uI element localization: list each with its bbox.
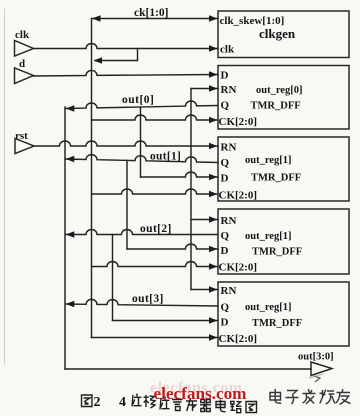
svg-text:2: 2 xyxy=(94,395,101,410)
out[2] drop vertical to D of out_reg[3] xyxy=(112,235,114,321)
wire CK[2:0] of out_reg[0] xyxy=(92,115,219,120)
wire rst trunk to RN out_reg[2] xyxy=(191,219,218,221)
stray mark xyxy=(314,376,320,382)
svg-text:D: D xyxy=(221,317,229,329)
arrowhead into clk_skew port xyxy=(209,15,218,21)
svg-text:out[3:0]: out[3:0] xyxy=(298,352,334,363)
caption figure number glyph tu xyxy=(82,395,93,407)
svg-text:RN: RN xyxy=(221,142,237,154)
arrowhead into D port reg3 xyxy=(209,317,218,323)
arrowhead into RN port reg0 xyxy=(209,85,218,91)
svg-text:RN: RN xyxy=(221,84,237,96)
svg-text:RN: RN xyxy=(221,215,237,227)
wire out bus bottom to output buffer xyxy=(65,368,311,370)
arrowhead out[2] into bus xyxy=(66,231,75,237)
input buffer d xyxy=(15,68,34,84)
rst trunk vertical xyxy=(190,89,192,290)
caption glyph tu xyxy=(246,402,257,413)
svg-text:D: D xyxy=(221,173,229,185)
caption glyph ji xyxy=(172,398,183,411)
out bus trunk vertical xyxy=(64,107,66,369)
svg-text:out[0]: out[0] xyxy=(122,94,154,106)
arrowhead into RN port reg3 xyxy=(209,286,218,292)
caption glyph cun xyxy=(186,399,197,412)
watermark glyph fa xyxy=(303,389,316,404)
svg-text:Q: Q xyxy=(221,100,230,112)
out_reg[2] TMR_DFF box xyxy=(218,209,349,274)
caption glyph qi xyxy=(200,400,211,412)
input buffer rst xyxy=(15,139,34,154)
output buffer out[3:0] xyxy=(311,362,332,376)
ck trunk vertical xyxy=(91,19,93,338)
wire CK[2:0] of out_reg[2] xyxy=(92,262,219,267)
svg-text:rst: rst xyxy=(15,130,28,142)
svg-text:clk: clk xyxy=(220,44,235,56)
caption glyph wei xyxy=(160,397,170,410)
svg-text:D: D xyxy=(221,245,229,257)
wire out[0] from Q of out_reg[0] to bus trunk xyxy=(66,101,218,108)
svg-text:Q: Q xyxy=(221,230,230,242)
wire d to D of out_reg[0] xyxy=(34,70,219,76)
wire rst to RN of out_reg[1] xyxy=(34,141,218,146)
arrowhead into RN port reg2 xyxy=(209,216,218,222)
wire out[2] from Q of out_reg[2] to bus trunk xyxy=(66,230,218,235)
svg-text:out[2]: out[2] xyxy=(140,223,172,235)
arrowhead clk fork into trunk xyxy=(94,57,103,63)
wire CK[2:0] of out_reg[1] xyxy=(92,189,219,194)
svg-text:elecfans.com: elecfans.com xyxy=(154,384,247,403)
svg-text:out_reg[1]: out_reg[1] xyxy=(245,155,291,166)
arrowhead into CK port reg3 xyxy=(209,334,218,340)
svg-text:CK[2:0]: CK[2:0] xyxy=(219,190,258,202)
svg-text:clkgen: clkgen xyxy=(259,26,296,41)
svg-text:clk: clk xyxy=(15,29,30,41)
svg-text:out_reg[1]: out_reg[1] xyxy=(245,302,291,313)
arrowhead into CK port reg2 xyxy=(209,263,218,269)
wire D of out_reg[3] xyxy=(113,320,219,322)
wire D of out_reg[2] xyxy=(127,244,218,249)
wire ck[1:0] horizontal xyxy=(92,18,218,20)
out_reg[1] TMR_DFF box xyxy=(218,137,349,201)
arrowhead into CK port reg0 xyxy=(209,117,218,123)
arrowhead out[0] into bus xyxy=(66,105,75,111)
svg-text:out_reg[1]: out_reg[1] xyxy=(245,231,291,242)
wire clk to clkgen xyxy=(34,44,219,49)
input buffer clk xyxy=(15,41,34,57)
watermark glyph zi xyxy=(286,391,299,405)
wire clk fork vertical xyxy=(137,49,139,61)
svg-text:d: d xyxy=(19,58,25,70)
svg-text:TMR_DFF: TMR_DFF xyxy=(251,101,301,112)
svg-text:4: 4 xyxy=(119,395,126,410)
smudge under output buffer xyxy=(309,374,323,378)
svg-text:out_reg[0]: out_reg[0] xyxy=(256,85,302,96)
svg-text:CK[2:0]: CK[2:0] xyxy=(219,262,258,274)
wire out[1] from Q of out_reg[1] to bus trunk xyxy=(66,155,218,163)
out[0] drop vertical to D of out_reg[1] xyxy=(140,107,142,177)
clkgen U1 box xyxy=(218,11,349,58)
arrowhead ck[1:0] into trunk xyxy=(92,15,101,21)
out_reg[0] TMR_DFF box xyxy=(218,66,349,130)
svg-text:ck[1:0]: ck[1:0] xyxy=(134,7,169,19)
svg-text:TMR_DFF: TMR_DFF xyxy=(252,247,302,258)
caption glyph wei xyxy=(132,394,142,407)
svg-text:D: D xyxy=(221,70,229,82)
arrowhead into D port reg2 xyxy=(209,246,218,252)
watermark glyph shao xyxy=(320,390,336,405)
svg-text:Q: Q xyxy=(221,302,230,314)
watermark glyph dian xyxy=(270,389,281,403)
arrowhead into CK port reg1 xyxy=(209,191,218,197)
arrowhead into D port reg1 xyxy=(209,174,218,180)
arrowhead into D port reg0 xyxy=(209,71,218,77)
wire out[3] from Q of out_reg[3] to bus trunk xyxy=(66,299,218,306)
svg-text:RN: RN xyxy=(221,285,237,297)
svg-text:TMR_DFF: TMR_DFF xyxy=(251,173,301,184)
watermark glyph you xyxy=(336,389,351,405)
arrowhead out[3] into bus xyxy=(66,301,75,307)
wire clk fork to ck trunk xyxy=(95,60,138,62)
svg-text:Q: Q xyxy=(221,157,230,169)
wire rst trunk to RN out_reg[3] xyxy=(191,289,218,291)
arrowhead into RN port reg1 xyxy=(209,143,218,149)
out[1] drop vertical to D of out_reg[2] xyxy=(126,160,128,249)
svg-text:out[1]: out[1] xyxy=(150,151,181,163)
svg-text:CK[2:0]: CK[2:0] xyxy=(219,116,258,128)
wire CK[2:0] of out_reg[3] xyxy=(92,337,219,339)
wire D of out_reg[1] xyxy=(141,172,219,177)
caption glyph dian xyxy=(216,400,226,412)
svg-text:out[3]: out[3] xyxy=(132,293,164,305)
wire rst trunk to RN out_reg[0] xyxy=(191,88,218,90)
svg-text:CK[2:0]: CK[2:0] xyxy=(219,333,258,345)
scan edge line xyxy=(4,9,6,364)
caption glyph yi xyxy=(144,395,156,408)
caption glyph lu xyxy=(231,401,242,412)
arrowhead out[1] into bus xyxy=(66,156,75,162)
svg-text:TMR_DFF: TMR_DFF xyxy=(252,318,302,329)
arrowhead into clk port xyxy=(209,45,218,51)
out_reg[3] TMR_DFF box xyxy=(218,282,349,346)
